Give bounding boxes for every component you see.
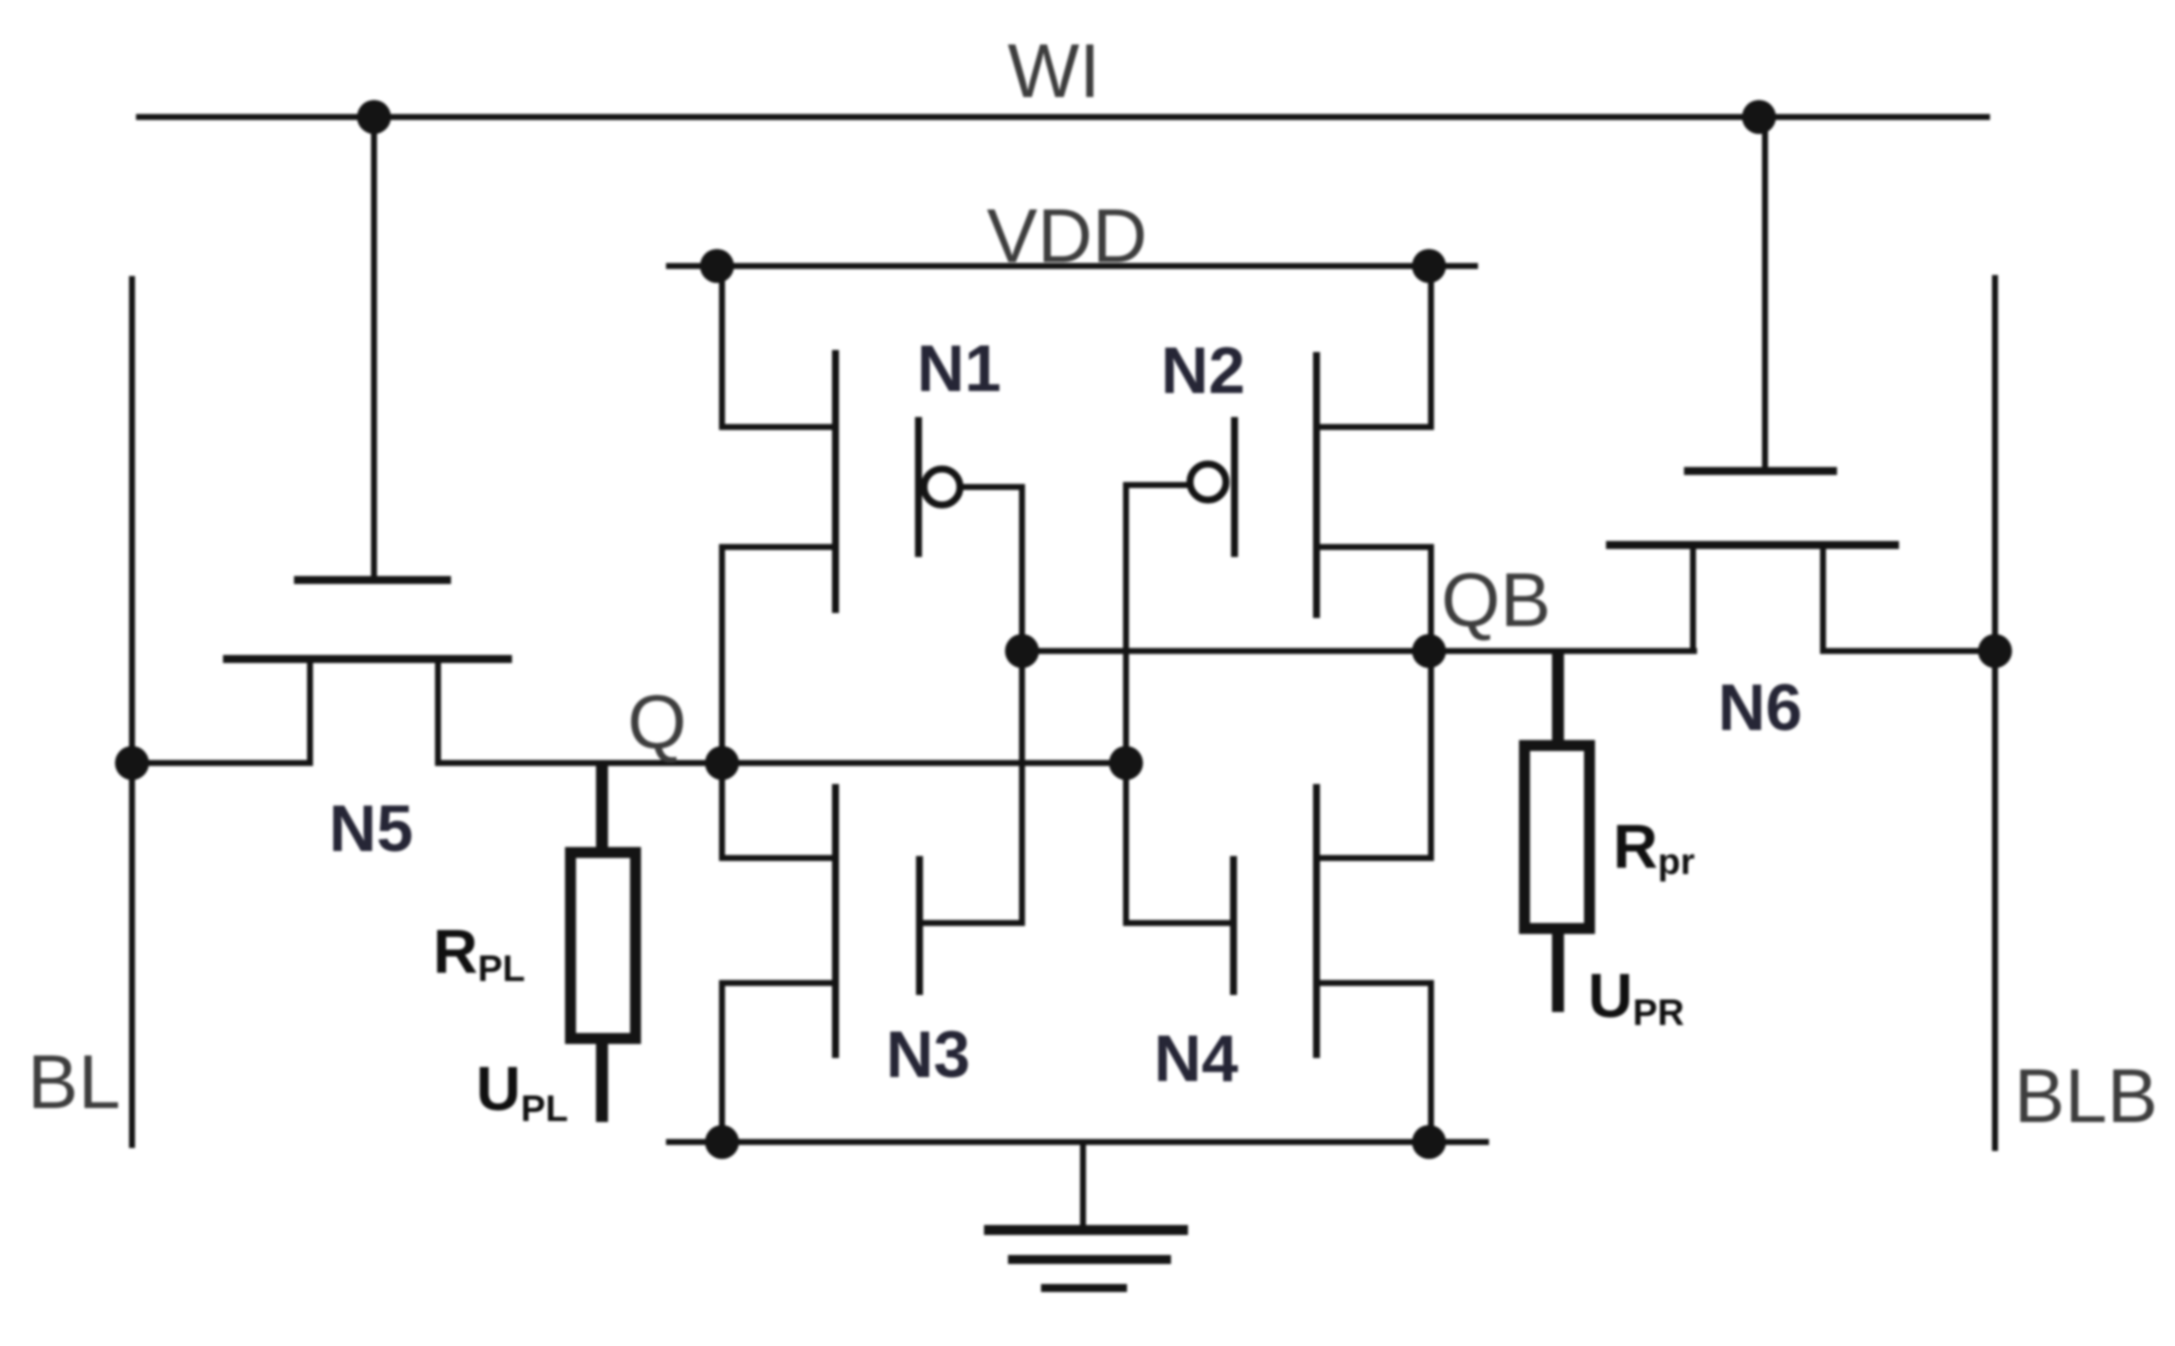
transistor N3 gate bar — [916, 856, 923, 995]
wire N1-N3 gate vertical — [1019, 484, 1025, 926]
transistor N6 channel — [1606, 541, 1899, 549]
resistor Rpr body — [1525, 746, 1590, 929]
wire node QB horizontal — [1022, 648, 1697, 654]
ground symbol bar 3 — [1041, 1284, 1127, 1292]
transistor N1 gate bar — [915, 417, 922, 557]
transistor N5 gate wire from WL — [371, 117, 377, 580]
transistor P1 channel bar — [832, 350, 839, 613]
transistor P1 source wire from VDD — [719, 266, 725, 430]
resistor RPL body — [571, 853, 636, 1039]
transistor N4 drain lead — [1313, 855, 1434, 861]
transistor N6 right stub to BLB — [1820, 543, 1826, 654]
transistor N6 gate plate — [1684, 467, 1837, 475]
transistor N1 gate bubble — [924, 469, 960, 505]
wire N6 to BLB — [1820, 648, 1995, 654]
node WL-N6 junction dot — [1742, 100, 1776, 134]
transistor N3 gate lead — [916, 920, 1025, 926]
transistor N4 source lead — [1313, 980, 1434, 986]
ground symbol bar 1 — [984, 1225, 1188, 1235]
resistor RPL bottom stem — [596, 1040, 608, 1122]
wire N4 source to ground rail — [1428, 980, 1434, 1145]
node QB junction dot at gate vertical — [1005, 634, 1039, 668]
svg-text:N1: N1 — [917, 331, 1001, 405]
ground symbol bar 2 — [1008, 1255, 1171, 1264]
transistor N5 left stub to BL — [307, 657, 313, 766]
wire Q to N3 drain — [719, 763, 725, 858]
transistor N4 channel bar — [1313, 784, 1320, 1058]
svg-text:N4: N4 — [1154, 1021, 1239, 1095]
transistor N4 gate lead — [1126, 920, 1236, 926]
node BLB junction dot — [1978, 634, 2012, 668]
wire BLB vertical — [1992, 275, 1998, 1151]
resistor Rpr bottom stem — [1552, 930, 1564, 1012]
wire N2 gate lead — [1123, 482, 1192, 488]
svg-text:WI: WI — [1008, 29, 1101, 114]
wire P2 drain to QB — [1428, 544, 1434, 654]
transistor P2 channel bar — [1313, 352, 1320, 618]
svg-text:Q: Q — [627, 680, 686, 765]
node ground rail right dot — [1412, 1125, 1446, 1159]
node QB junction dot right — [1412, 634, 1446, 668]
resistor RPL top stem — [596, 760, 608, 852]
ground symbol stem — [1080, 1142, 1086, 1230]
svg-text:N3: N3 — [886, 1017, 970, 1091]
node Q-N2gate junction dot — [1109, 746, 1143, 780]
transistor P2 source lead — [1315, 424, 1434, 430]
node BL junction dot — [115, 746, 149, 780]
node Q junction dot — [705, 746, 739, 780]
svg-text:N2: N2 — [1161, 333, 1245, 407]
resistor Rpr top stem — [1552, 648, 1564, 746]
transistor N5 gate plate — [294, 576, 451, 584]
transistor P2 drain lead — [1315, 544, 1434, 550]
wire node Q horizontal — [435, 760, 1126, 766]
wire VDD rail — [666, 263, 1478, 269]
node VDD right junction dot — [1412, 249, 1446, 283]
transistor N6 left stub to QB — [1690, 543, 1696, 654]
node WL-N5 junction dot — [357, 100, 391, 134]
svg-text:N5: N5 — [329, 791, 413, 865]
transistor N4 gate bar — [1230, 856, 1237, 995]
svg-text:N6: N6 — [1718, 670, 1802, 744]
svg-text:BLB: BLB — [2014, 1054, 2158, 1139]
transistor N5 right stub to Q — [435, 657, 441, 766]
transistor P1 drain lead — [719, 544, 838, 550]
wire BL vertical — [129, 276, 135, 1148]
node VDD left junction dot — [700, 249, 734, 283]
transistor N5 channel — [223, 655, 512, 663]
svg-text:BL: BL — [28, 1040, 121, 1125]
wire N1 gate lead — [959, 484, 1022, 490]
transistor P1 source lead — [719, 424, 838, 430]
wire WL horizontal — [136, 114, 1990, 120]
node ground rail left dot — [705, 1125, 739, 1159]
transistor N3 channel bar — [832, 784, 839, 1058]
wire P1 drain to Q — [719, 544, 725, 766]
svg-text:QB: QB — [1441, 558, 1551, 643]
wire QB to N4 drain — [1428, 651, 1434, 858]
transistor N2 gate bar — [1231, 417, 1238, 557]
transistor N6 gate wire from WL — [1762, 117, 1768, 471]
wire ground rail — [666, 1139, 1489, 1145]
svg-text:VDD: VDD — [987, 194, 1147, 279]
transistor P2 source wire from VDD — [1428, 266, 1434, 430]
transistor N3 source lead — [719, 980, 832, 986]
wire N2-N4 gate vertical — [1123, 482, 1129, 926]
wire N3 source to ground rail — [719, 980, 725, 1145]
transistor N2 gate bubble — [1190, 464, 1226, 500]
wire BL to N5 — [132, 760, 313, 766]
transistor N3 drain lead — [719, 855, 832, 861]
